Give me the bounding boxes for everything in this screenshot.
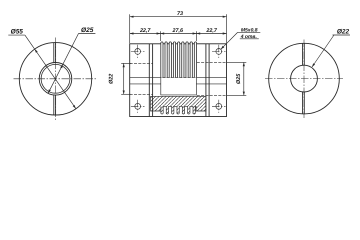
hidden bore line upper left hub: [130, 62, 153, 64]
svg-text:M5x0,8: M5x0,8: [241, 28, 258, 34]
dimension D55 arrow upper: [35, 49, 38, 53]
svg-text:22,7: 22,7: [205, 28, 217, 34]
left collar line 2: [152, 44, 154, 117]
right hub outer circle: [269, 43, 340, 114]
dimension D25 right dim line: [243, 62, 245, 95]
left hub counterbore circle D25: [39, 63, 72, 96]
dimension D22 right view leader: [312, 35, 334, 67]
dimension line 22.7/27.6/22.7: [130, 33, 227, 35]
hidden bore line lower left hub: [130, 93, 153, 95]
right collar line 1: [205, 44, 207, 117]
left end view centerline vertical: [55, 38, 57, 121]
dimension D22 extension line top: [121, 62, 131, 64]
screw hole bottom-left crosshair: [131, 100, 145, 113]
hidden bore line upper right hub: [197, 61, 227, 63]
dimension D25 arrow upper: [60, 64, 63, 68]
right end view centerline horizontal: [265, 78, 343, 80]
extension line right (x=226.5): [226, 14, 228, 43]
mid horizontal line (axis): [130, 77, 227, 79]
dimension D22 arrow bottom: [123, 91, 125, 95]
leader underline 4 holes: [240, 38, 259, 40]
screw hole top-right crosshair: [212, 45, 226, 58]
svg-text:27,6: 27,6: [172, 28, 184, 34]
svg-text:Ø22: Ø22: [109, 74, 115, 84]
dimension 73 arrows: [130, 16, 134, 18]
dimension D55 shelf: [8, 34, 25, 36]
dimension 73 line: [130, 16, 227, 18]
dimension D22 dimension line: [123, 63, 125, 94]
left end view centerline horizontal: [14, 78, 98, 80]
svg-text:73: 73: [177, 11, 183, 17]
leader shelf M5: [238, 31, 261, 33]
dimension D55 leader line across outer circle: [25, 35, 76, 109]
coupling body outline (side view): [130, 44, 227, 117]
clamp slit bottom (left view): [54, 95, 56, 115]
screw hole top-right M5: [216, 49, 222, 55]
leader M5 thread callout: [221, 32, 238, 49]
screw hole bottom-right crosshair: [212, 100, 226, 113]
clamp slit top (right view): [303, 44, 305, 66]
bellows lower section (hatched): [151, 96, 206, 114]
svg-text:4 отв.: 4 отв.: [240, 34, 257, 40]
screw hole top-left M5: [135, 49, 141, 55]
dimension D25 right extension top: [227, 61, 246, 63]
svg-text:Ø55: Ø55: [11, 29, 24, 36]
lower hub line left: [130, 83, 161, 85]
screw hole bottom-right M5: [216, 103, 222, 109]
extension line bellows left: [159, 31, 161, 41]
arrows 22.7 right segment: [196, 32, 200, 34]
extension line bellows right: [195, 31, 197, 41]
screw hole bottom-left M5: [135, 103, 141, 109]
dimension D22 extension line bottom: [121, 93, 131, 95]
lower hub line right: [196, 83, 226, 85]
screw hole top-left crosshair: [131, 45, 145, 58]
left collar line 1: [148, 44, 150, 117]
hidden bore line lower right hub: [197, 94, 227, 96]
svg-text:Ø25: Ø25: [81, 27, 94, 34]
arrows 27.6 segment: [160, 32, 164, 34]
svg-text:22,7: 22,7: [139, 28, 151, 34]
arrows 22.7 left segment: [130, 32, 134, 34]
bellows corrugations (external view): [161, 42, 197, 78]
extension line left (x=129.7): [129, 14, 131, 43]
dimension D25 leader line across inner circle: [48, 34, 78, 94]
bellows inner sleeve box: [161, 78, 197, 95]
right collar line 2: [208, 44, 210, 117]
dimension D25 right extension bottom: [227, 94, 246, 96]
dimension D25 arrow lower: [48, 89, 51, 93]
right hub bore circle D22: [291, 65, 318, 92]
right end view centerline vertical: [303, 40, 305, 119]
clamp slit top (left view): [54, 43, 56, 63]
dimension D22 right view shelf: [333, 34, 351, 36]
left hub outer circle D55: [19, 43, 91, 115]
dimension D25 shelf: [79, 33, 96, 35]
dimension D22 arrow top: [123, 63, 125, 67]
svg-text:Ø22: Ø22: [337, 28, 350, 35]
svg-text:Ø25: Ø25: [236, 73, 242, 84]
clamp slit bottom (right view): [303, 92, 305, 114]
left hub bore circle D22: [41, 64, 70, 93]
dimension D55 arrow lower: [73, 105, 76, 109]
